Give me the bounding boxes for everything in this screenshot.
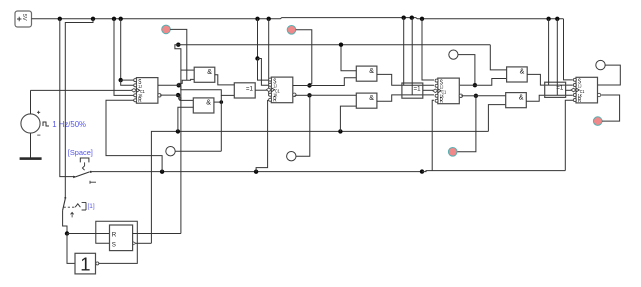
- svg-text:[Space]: [Space]: [68, 148, 93, 157]
- wire switch bus: [92, 171, 422, 173]
- svg-text:R: R: [112, 232, 117, 239]
- wire FF1.Q: [158, 84, 179, 86]
- wire +5V to FF1.1K: [114, 19, 134, 96]
- node +5V j11: [555, 17, 559, 21]
- node +5V j6: [267, 17, 271, 21]
- wire mid enable bus: [151, 131, 488, 243]
- wire +5V to FF3.S: [422, 19, 434, 80]
- wire FF1.Qn: [160, 94, 178, 96]
- wire +5V to FF1.S riser: [120, 19, 122, 80]
- node sw bus j2: [254, 170, 258, 174]
- wire clock to C1 riser: [30, 90, 32, 114]
- XOR gate U4: [234, 83, 255, 98]
- svg-text:5V: 5V: [21, 14, 27, 21]
- node mid bus j1: [176, 129, 180, 133]
- AND gate U2: [194, 67, 215, 82]
- wire FF3.Qn: [461, 95, 476, 97]
- wire FF2.Q to AND3.in2: [310, 78, 357, 86]
- node FF3.Q: [473, 83, 477, 87]
- pin AND2.in1 terminal: [179, 97, 182, 100]
- svg-text:&: &: [519, 94, 524, 101]
- node mid bus j2: [338, 129, 342, 133]
- LED D3 (on): [448, 148, 457, 157]
- wire +5V top rail: [32, 18, 564, 19]
- wire AND2.out: [214, 101, 221, 103]
- wire +5V rail c: [548, 19, 550, 85]
- wire +5V rail to switch S1: [60, 19, 75, 177]
- 5V supply V1: [15, 11, 32, 27]
- JK flip-flop FF1: [136, 78, 158, 104]
- node FF1.Q: [177, 83, 181, 87]
- wire to FF2.S: [258, 59, 270, 81]
- wire FF1.Qn to AND2.in1: [178, 95, 193, 100]
- wire FF1.Q to AND1.in2: [179, 79, 195, 85]
- wire FF2.Qn to probe P2: [296, 95, 310, 156]
- wire +5V to FF2.1K: [268, 19, 271, 96]
- LED D2 (on): [287, 26, 296, 35]
- wire FF3.Q: [460, 84, 475, 86]
- node +5V j1: [58, 17, 62, 21]
- wire AND4.out to FF3.1K: [377, 95, 434, 101]
- wire FF2.Q: [293, 85, 310, 87]
- JK flip-flop FF2: [271, 77, 293, 103]
- wire probe P3 to FF3.Q: [458, 55, 475, 86]
- svg-text:[1]: [1]: [88, 203, 95, 210]
- wire FF2.R to switch bus: [256, 100, 270, 171]
- node +5V j5: [255, 17, 259, 21]
- probe P2 (output circle): [287, 152, 296, 161]
- RS latch U12: [110, 225, 133, 251]
- wire enable bus to RS.Q riser: [175, 45, 181, 234]
- wire XOR1.in2/white probe riser: [220, 95, 222, 151]
- wire clock to ground: [30, 133, 32, 157]
- wire FF3.Q to AND5.in2: [475, 79, 507, 86]
- wire XOR3.out to FF4.C1: [566, 89, 574, 91]
- node FF3.Qn: [474, 94, 478, 98]
- XOR gate U7: [402, 83, 423, 98]
- JK flip-flop FF4: [576, 77, 598, 103]
- probe P3 (input circle): [449, 50, 458, 59]
- node enable j2: [339, 43, 343, 47]
- LED D1 (on): [162, 25, 171, 34]
- XOR gate U10: [545, 82, 566, 97]
- wire to NOT.in: [67, 234, 75, 264]
- node +5V j7: [402, 16, 406, 20]
- wire FF3.Qn to LED3: [457, 96, 476, 152]
- wire XOR2.out to FF3.C1: [423, 89, 435, 91]
- wire FF2.Qn to AND4.in1: [310, 94, 357, 96]
- wire +5V rail b: [411, 18, 413, 95]
- wire XOR1.out to FF2.C1: [255, 89, 269, 91]
- AND gate U3: [193, 98, 214, 113]
- wire NOT.out to RS.S: [96, 221, 138, 263]
- wire mid bus to AND4.in2: [340, 106, 356, 131]
- svg-text:&: &: [369, 68, 374, 75]
- wire enable to AND5.in1: [490, 45, 506, 70]
- node sw bus j3: [420, 169, 424, 173]
- svg-text:1: 1: [80, 254, 90, 275]
- node FF1.S feed: [119, 78, 123, 82]
- wire AND5.out to FF4.1J: [527, 74, 573, 85]
- svg-text:S: S: [112, 242, 116, 249]
- node S2 out: [65, 231, 69, 235]
- svg-text:R: R: [440, 97, 444, 105]
- wire enable bus: [178, 44, 490, 46]
- wire to FF1.S: [121, 79, 134, 81]
- svg-text:&: &: [520, 69, 525, 76]
- svg-text:&: &: [206, 100, 211, 107]
- wire AND6.out to FF4.1K: [526, 95, 573, 101]
- svg-text:R: R: [138, 96, 142, 104]
- wire AND3.out to FF3.1J: [377, 74, 434, 85]
- wire FF3.R to switch bus: [432, 100, 434, 170]
- wire to FF2.1J: [258, 59, 270, 86]
- wire FF1.Q to XOR1.in2: [179, 85, 235, 95]
- AND gate U5: [356, 66, 377, 81]
- svg-text:1 Hz/50%: 1 Hz/50%: [52, 120, 86, 129]
- clock source CLK (1 Hz/50%): [21, 114, 40, 133]
- node +5V j4: [119, 17, 123, 21]
- node reset bus left: [176, 43, 180, 47]
- probe P1 (output circle): [166, 147, 175, 156]
- AND gate U8: [507, 67, 528, 82]
- wire to RS.R: [67, 233, 110, 235]
- wire RS.Q to enable riser: [133, 233, 181, 235]
- probe P4 (output circle): [596, 60, 605, 69]
- node +5V j10: [546, 17, 550, 21]
- svg-text:R: R: [578, 96, 582, 104]
- wire enable to AND1.in1: [181, 69, 194, 71]
- node sw bus j1: [160, 170, 164, 174]
- wire FF4.Qn to LED4: [601, 95, 619, 121]
- wire AND1.out to XOR1.in1: [215, 75, 235, 85]
- wire enable to AND3.in1: [341, 45, 356, 71]
- wire +5V rail a: [403, 18, 405, 86]
- NOT gate U11: [75, 253, 96, 274]
- svg-text:&: &: [369, 95, 374, 102]
- wire LED1 to FF1.Q net: [170, 29, 187, 80]
- node FF1.Qn: [176, 93, 180, 97]
- AND gate U6: [356, 93, 377, 108]
- node +5V j9: [420, 17, 424, 21]
- svg-text:=1: =1: [246, 85, 254, 92]
- wire mid bus to AND6.in2: [488, 105, 505, 132]
- wire LED2 to FF2.Q: [296, 30, 312, 86]
- AND gate U9: [506, 93, 527, 108]
- node +5V j2: [91, 17, 95, 21]
- wire S2 to node: [63, 210, 67, 233]
- wire FF3.Qn to AND6.in1: [476, 95, 506, 97]
- wire switch bus right: [422, 171, 565, 172]
- node FF2.Q: [307, 83, 311, 87]
- node FF2.Qn: [307, 93, 311, 97]
- wire RS.Qn to mid bus: [136, 242, 151, 244]
- wire to FF1.1J: [121, 80, 134, 85]
- wire to probe P1: [175, 150, 221, 152]
- wire FF4.Q to probe P4: [598, 65, 620, 85]
- ground GND: [20, 157, 42, 160]
- node +5V j3: [112, 17, 116, 21]
- wire FF1.R to switch bus: [106, 100, 162, 172]
- wire FF2.Qn: [295, 94, 310, 96]
- JK flip-flop FF3: [438, 78, 460, 104]
- wire FF4.R to switch bus: [565, 100, 575, 170]
- wire +5V to FF4.S: [564, 19, 573, 80]
- wire clock to FF1.C1: [31, 89, 135, 91]
- svg-text:&: &: [207, 69, 212, 76]
- node AND2.out tee: [220, 100, 224, 104]
- LED D4 (on): [593, 117, 602, 126]
- node FF2 feed: [255, 56, 259, 60]
- svg-text:=1: =1: [414, 86, 422, 93]
- node +5V j8: [410, 16, 414, 20]
- wire +5V FF2.S riser: [257, 19, 259, 59]
- wire +5V rail d: [556, 19, 558, 96]
- wire mid bus to AND2.in2: [178, 107, 193, 131]
- wire +5V rail to switch S2: [65, 19, 93, 198]
- svg-text:R: R: [273, 96, 277, 104]
